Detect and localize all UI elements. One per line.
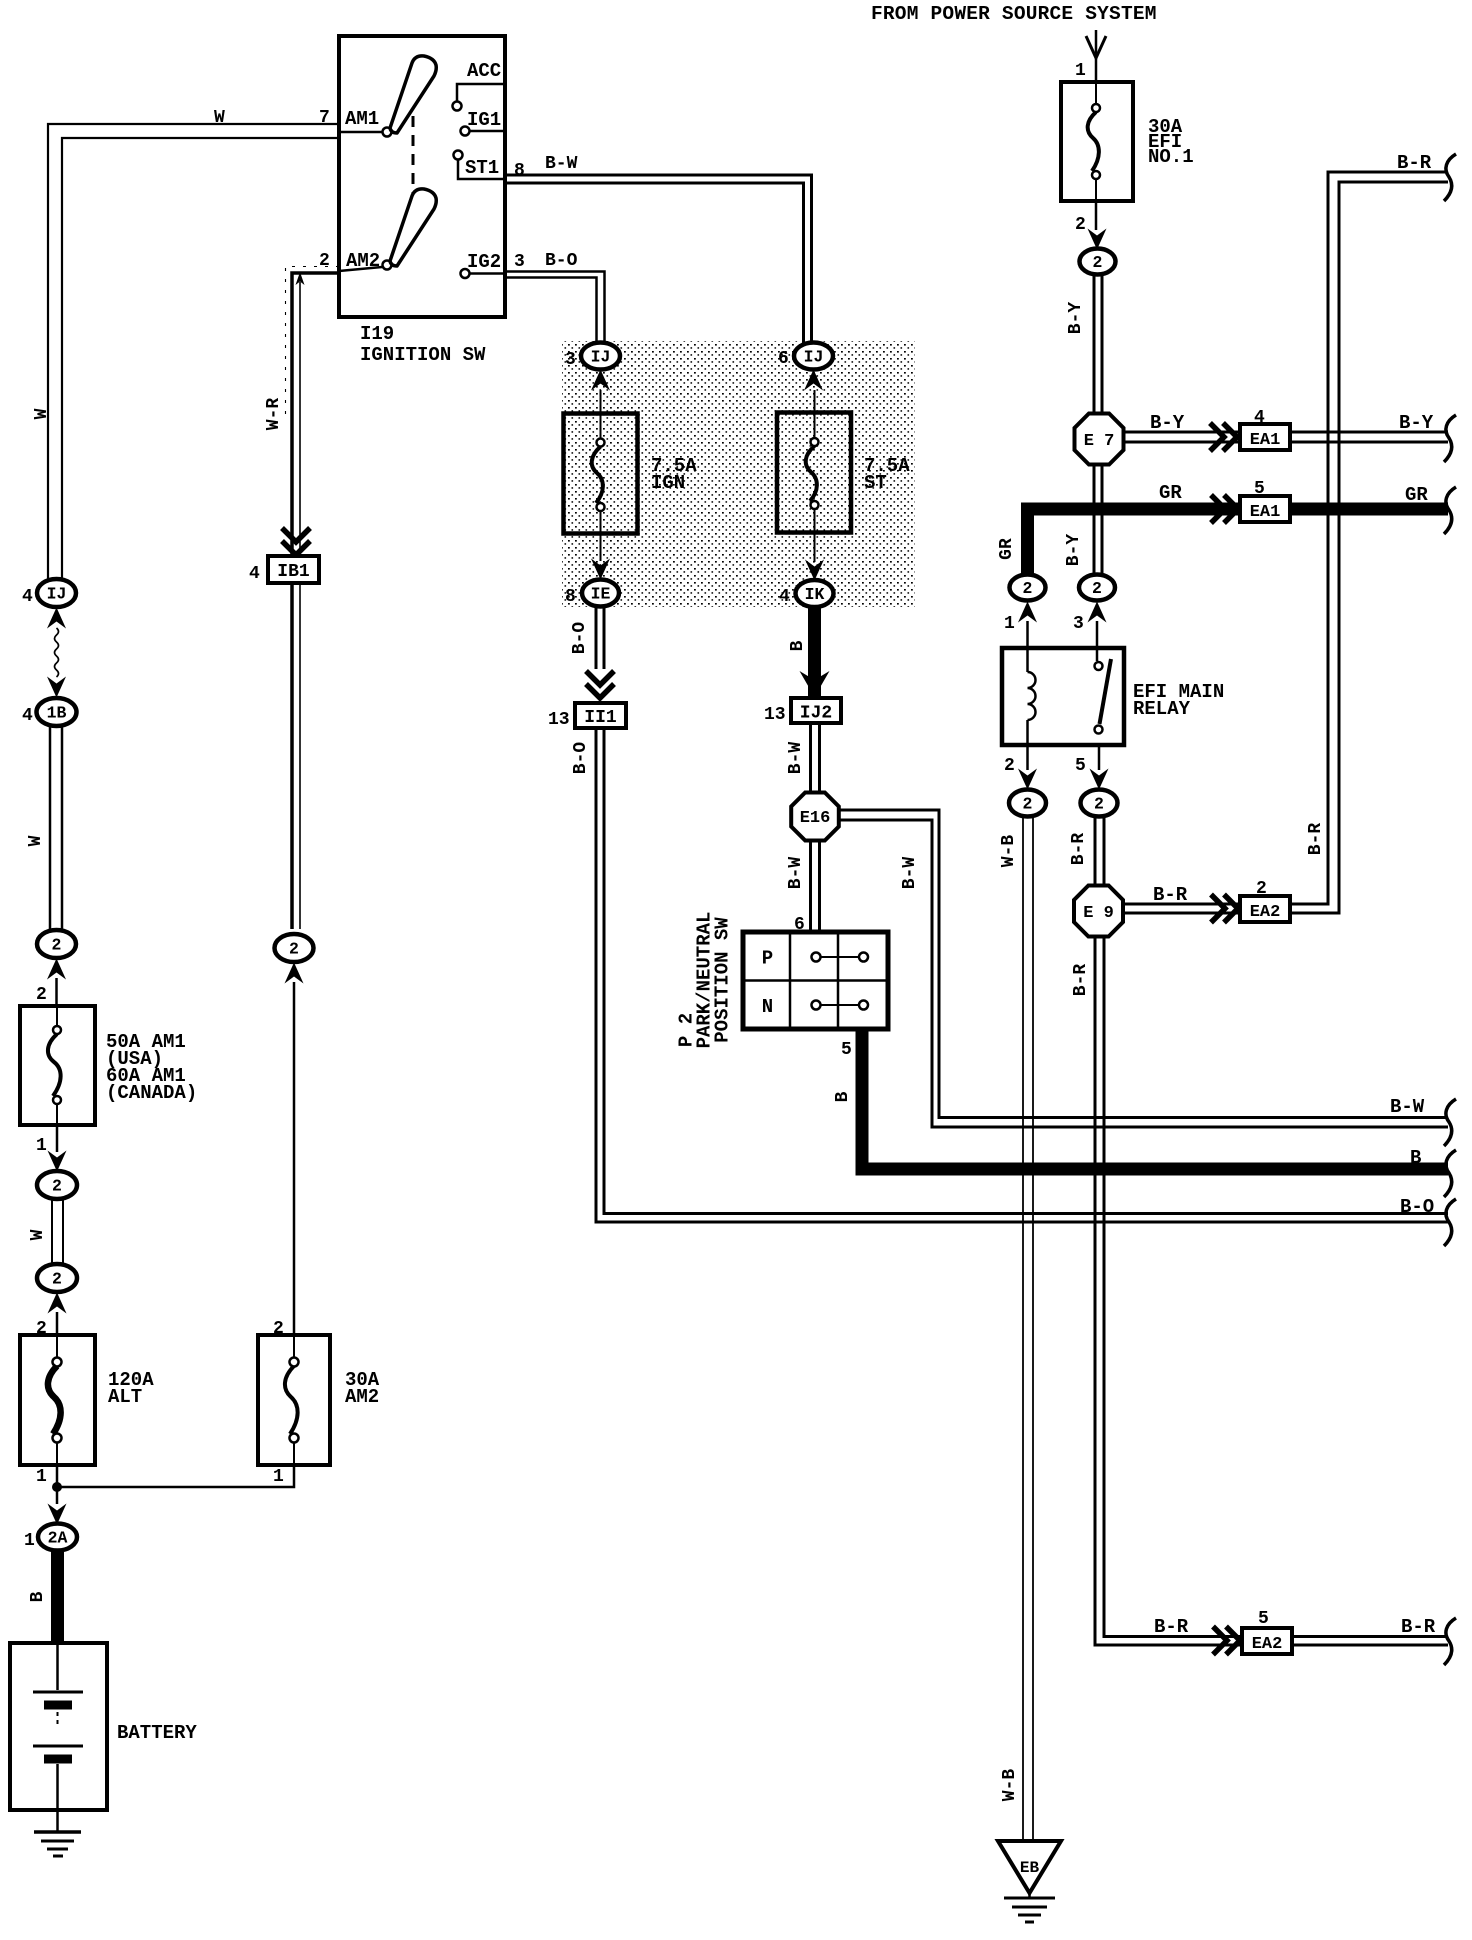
svg-text:2: 2	[1023, 795, 1033, 814]
arrow into IJ	[47, 608, 66, 629]
svg-text:AM2: AM2	[345, 1386, 379, 1408]
wire W below 1B	[49, 726, 52, 931]
svg-text:AM2: AM2	[346, 250, 380, 272]
svg-text:(CANADA): (CANADA)	[106, 1082, 197, 1104]
svg-text:EA2: EA2	[1252, 1635, 1283, 1654]
relay switch	[1096, 648, 1099, 661]
connector ovals 2 below relay	[1009, 790, 1046, 817]
wire B (thick) from pin 5 to bus	[862, 1029, 1448, 1169]
svg-text:1: 1	[36, 1467, 47, 1487]
wire W-B down to EB ground	[1022, 816, 1024, 1841]
svg-text:B-O: B-O	[545, 251, 578, 271]
wire B-O from IG2 pin 3	[505, 272, 605, 344]
wire to relay pin 3	[1096, 621, 1099, 648]
thick arrow into IJ2	[800, 671, 830, 697]
svg-text:3: 3	[565, 350, 576, 370]
wire break B-R lower	[1444, 1618, 1456, 1665]
svg-text:IJ: IJ	[804, 348, 824, 367]
fuse 120A ALT	[20, 1335, 95, 1465]
svg-text:NO.1: NO.1	[1148, 146, 1194, 168]
wire from 30A AM2 to junction	[57, 1465, 294, 1487]
svg-text:2: 2	[1023, 579, 1033, 598]
svg-text:2: 2	[52, 1177, 62, 1196]
arrow into 2A	[48, 1504, 67, 1525]
junction node	[52, 1482, 62, 1492]
svg-text:5: 5	[1075, 756, 1086, 776]
svg-text:2: 2	[289, 940, 299, 959]
wire B-W from IJ2 to E16	[809, 723, 812, 793]
svg-text:2: 2	[1094, 795, 1104, 814]
svg-text:GR: GR	[1405, 484, 1428, 506]
connector oval 2 (EFI fuse)	[1080, 249, 1116, 275]
svg-text:B: B	[788, 640, 808, 651]
wire to fuse 120A ALT	[56, 1312, 59, 1335]
arrow into oval 2	[48, 1293, 67, 1314]
svg-text:5: 5	[841, 1040, 852, 1060]
svg-text:3: 3	[1073, 614, 1084, 634]
svg-text:B-W: B-W	[1390, 1096, 1425, 1118]
arrow into 6 IJ	[804, 370, 823, 391]
wire break B-O	[1444, 1199, 1456, 1246]
svg-text:AM1: AM1	[345, 108, 379, 130]
svg-text:B-Y: B-Y	[1150, 412, 1185, 434]
svg-text:IGNITION SW: IGNITION SW	[360, 344, 486, 366]
connector 2 EA2	[1240, 896, 1290, 922]
svg-text:2: 2	[52, 1270, 62, 1289]
svg-text:P: P	[762, 948, 773, 970]
wire W-R to fuse 30A AM2	[293, 982, 296, 1335]
svg-text:2: 2	[1075, 215, 1086, 235]
splice E16 octagon	[791, 793, 839, 841]
svg-text:B-W: B-W	[786, 857, 806, 890]
wire break GR	[1444, 487, 1456, 534]
chevron arrow into EA2 pin 2	[1211, 895, 1238, 923]
svg-text:1: 1	[36, 1136, 47, 1156]
feed arrow from power source	[1086, 36, 1106, 58]
svg-text:B: B	[833, 1091, 853, 1102]
splice E9 octagon	[1074, 886, 1123, 937]
wire B-W from E16 down to P/N switch	[809, 840, 812, 932]
svg-text:W: W	[214, 108, 225, 128]
N contacts	[812, 1001, 821, 1010]
svg-text:IGN: IGN	[651, 472, 685, 494]
rotor lever AM2	[390, 189, 436, 266]
fuse 7.5A ST	[777, 413, 851, 533]
svg-text:3: 3	[514, 252, 525, 272]
svg-text:W-B: W-B	[999, 835, 1019, 868]
arrow into 1B	[47, 677, 66, 698]
svg-text:E 9: E 9	[1083, 904, 1114, 923]
fuse 50A AM1	[20, 1006, 95, 1125]
wire to fuse 7.5A IGN	[600, 390, 602, 438]
connector oval 4 IJ (left)	[37, 579, 76, 607]
wire B-O below II1 to bus	[596, 728, 1448, 1222]
svg-text:1: 1	[273, 1467, 284, 1487]
svg-text:W: W	[32, 408, 52, 419]
arrow into 3 IJ	[591, 370, 610, 391]
contact AM2	[339, 267, 383, 271]
rotor lever AM1	[390, 56, 436, 133]
wire B-R from E9 down to 5 EA2	[1095, 936, 1240, 1645]
arrow into IE	[591, 559, 610, 580]
wire GR from EA1 to edge	[1291, 503, 1448, 516]
svg-text:1: 1	[24, 1531, 35, 1551]
svg-text:6: 6	[778, 349, 789, 369]
wire B-Y from E7 down	[1093, 464, 1096, 575]
wire B-Y from EA1 to edge	[1290, 431, 1448, 434]
svg-text:BATTERY: BATTERY	[117, 1722, 197, 1744]
svg-text:N: N	[762, 996, 773, 1018]
svg-text:2: 2	[1256, 879, 1267, 899]
svg-text:IG2: IG2	[467, 251, 501, 273]
wire to relay pin 1	[1026, 621, 1029, 648]
wire B-W branch right from E16 to bus	[840, 810, 1448, 1118]
svg-text:EB: EB	[1020, 1859, 1040, 1877]
svg-text:1: 1	[1075, 61, 1086, 81]
svg-text:B-R: B-R	[1069, 833, 1089, 866]
ignition switch I19 box	[339, 36, 505, 317]
svg-text:8: 8	[565, 587, 576, 607]
wire break B	[1444, 1150, 1456, 1197]
svg-text:ST1: ST1	[465, 157, 499, 179]
svg-text:4: 4	[22, 706, 33, 726]
wire from 30A EFI	[1095, 201, 1098, 230]
ground EB triangle	[998, 1841, 1061, 1893]
svg-text:EA2: EA2	[1250, 903, 1281, 922]
svg-text:2: 2	[319, 251, 330, 271]
wire B-W from ST1 pin 8	[505, 175, 812, 343]
relay coil	[1026, 648, 1029, 672]
svg-text:2: 2	[52, 936, 62, 955]
svg-text:4: 4	[22, 587, 33, 607]
wire W from AM1 pin 7 to left junction chain	[48, 124, 339, 581]
svg-text:W: W	[28, 1229, 48, 1240]
P/N switch column divider 1	[789, 932, 792, 1029]
wire B-R from EA2 up to top edge	[1290, 172, 1448, 904]
svg-text:ALT: ALT	[108, 1386, 142, 1408]
svg-text:B-W: B-W	[786, 742, 806, 775]
svg-text:GR: GR	[997, 538, 1017, 560]
arrow into oval 2	[47, 959, 66, 980]
wire from 120A ALT to junction	[56, 1465, 59, 1504]
wire B (thick) below IK	[808, 607, 821, 698]
park/neutral position switch P2 box	[743, 932, 888, 1029]
arrow into IK	[805, 560, 824, 581]
battery ground	[56, 1810, 59, 1832]
svg-text:B-W: B-W	[900, 857, 920, 890]
ground symbol	[1028, 1893, 1031, 1898]
svg-text:2A: 2A	[48, 1529, 68, 1548]
svg-text:IG1: IG1	[467, 109, 501, 131]
wire break B-R	[1444, 154, 1456, 201]
svg-text:1B: 1B	[47, 704, 67, 723]
svg-text:FROM POWER SOURCE SYSTEM: FROM POWER SOURCE SYSTEM	[871, 3, 1157, 25]
svg-text:GR: GR	[1159, 482, 1182, 504]
connector 5 EA2	[1242, 1628, 1292, 1654]
svg-text:POSITION SW: POSITION SW	[712, 917, 734, 1043]
svg-text:I19: I19	[360, 323, 394, 345]
arrow into oval 2 (GR)	[1018, 602, 1037, 623]
svg-text:IJ: IJ	[591, 348, 611, 367]
svg-text:4: 4	[249, 564, 260, 584]
chevron arrow into EA1 pin 4	[1210, 423, 1237, 451]
chevron arrow into EA1 pin 5	[1211, 495, 1238, 523]
svg-text:13: 13	[764, 705, 786, 725]
svg-text:5: 5	[1254, 479, 1265, 499]
wire break B-W	[1444, 1099, 1456, 1146]
wire B-R from EA2 to edge	[1292, 1635, 1448, 1638]
junction box 13 II1	[575, 703, 626, 728]
arrow into oval 2 (W-B)	[1018, 769, 1037, 790]
connector oval 6 IJ	[794, 343, 833, 370]
svg-text:B: B	[28, 1591, 48, 1602]
contact AM1	[339, 131, 383, 134]
svg-text:II1: II1	[584, 708, 617, 728]
connector ovals 2 above relay	[1010, 575, 1046, 601]
wire B (thick) to battery	[51, 1550, 64, 1643]
svg-text:IE: IE	[591, 585, 611, 604]
svg-text:2: 2	[36, 985, 47, 1005]
wire break B-Y	[1444, 415, 1456, 462]
wavy junction link	[55, 628, 59, 677]
svg-text:ACC: ACC	[467, 60, 501, 82]
svg-text:5: 5	[1258, 1609, 1269, 1629]
svg-text:B-O: B-O	[570, 622, 590, 655]
svg-text:B-W: B-W	[545, 154, 578, 174]
svg-text:IK: IK	[805, 585, 825, 604]
connector oval 1 2A	[38, 1524, 77, 1551]
svg-text:B-Y: B-Y	[1064, 534, 1084, 567]
svg-text:2: 2	[1004, 756, 1015, 776]
chevron arrow into II1	[586, 671, 614, 698]
chevron arrow into EA2 pin 5	[1213, 1627, 1240, 1655]
arrow into oval 2 (B-R)	[1090, 769, 1109, 790]
arrow into oval 2	[48, 1151, 67, 1172]
connector oval 2	[37, 1264, 77, 1292]
wire B-Y from E7 to EA1	[1124, 431, 1238, 434]
svg-text:B-R: B-R	[1153, 884, 1188, 906]
P/N switch column divider 2	[837, 932, 840, 1029]
splice E7 octagon	[1075, 414, 1124, 465]
connector 4 EA1	[1240, 424, 1290, 450]
wire B-O below IE	[595, 607, 598, 670]
connector 5 EA1	[1240, 496, 1290, 522]
svg-text:B-R: B-R	[1154, 1616, 1189, 1638]
svg-text:IJ: IJ	[47, 585, 67, 604]
junction box IB1	[282, 528, 310, 555]
svg-text:4: 4	[779, 587, 790, 607]
dashed link between levers	[412, 116, 415, 206]
arrow into oval 2 (AM2 branch)	[285, 963, 304, 984]
svg-text:B-R: B-R	[1306, 823, 1326, 856]
svg-text:W-B: W-B	[1000, 1769, 1020, 1802]
svg-text:RELAY: RELAY	[1133, 698, 1191, 720]
svg-text:2: 2	[1092, 579, 1102, 598]
P/N switch row divider	[743, 979, 888, 982]
junction box 13 IJ2	[791, 698, 841, 723]
svg-text:B-O: B-O	[571, 742, 591, 775]
wire W-R from AM2 pin 2	[286, 267, 340, 416]
wire W	[51, 1199, 53, 1264]
svg-text:1: 1	[1004, 614, 1015, 634]
connector oval 2 (AM2 branch)	[275, 934, 314, 962]
wire B-R from relay to E9	[1094, 816, 1097, 886]
svg-text:4: 4	[1254, 408, 1265, 428]
svg-text:IJ2: IJ2	[800, 704, 832, 724]
svg-text:B-R: B-R	[1401, 1616, 1436, 1638]
arrow into oval 2 (B-Y)	[1088, 602, 1107, 623]
svg-text:EA1: EA1	[1250, 431, 1281, 450]
connector oval 4 1B	[37, 698, 77, 726]
halftone stipple background panel	[562, 341, 915, 607]
svg-text:IB1: IB1	[277, 562, 310, 582]
svg-text:W: W	[26, 835, 46, 846]
svg-text:B-Y: B-Y	[1399, 412, 1434, 434]
wire B-R from E9 to EA2	[1123, 903, 1240, 906]
svg-text:E 7: E 7	[1084, 432, 1115, 451]
svg-text:W-R: W-R	[264, 398, 284, 431]
wire from 50A AM1	[56, 1125, 59, 1152]
fuse 30A EFI NO.1	[1061, 82, 1133, 201]
wire from relay pin 5	[1098, 745, 1101, 770]
svg-text:B-R: B-R	[1071, 964, 1091, 997]
svg-text:8: 8	[514, 161, 525, 181]
wire to fuse 50A AM1	[55, 978, 58, 1006]
svg-text:ST: ST	[864, 472, 887, 494]
svg-text:B-R: B-R	[1397, 152, 1432, 174]
P contacts	[812, 953, 821, 962]
connector oval 3 IJ	[581, 343, 620, 370]
wire from relay pin 2	[1026, 745, 1029, 770]
connector oval 2 (above 50A AM1)	[37, 930, 76, 958]
wire GR (thick) from oval up and right to EA1	[1028, 509, 1241, 575]
connector oval 8 IE	[582, 580, 619, 607]
fuse 7.5A IGN	[564, 414, 638, 534]
connector oval 4 IK	[796, 580, 834, 607]
svg-text:EA1: EA1	[1250, 503, 1281, 522]
svg-text:B: B	[1410, 1147, 1421, 1169]
wire B-Y down to E7	[1093, 274, 1096, 414]
fuse 30A AM2	[258, 1335, 330, 1465]
svg-text:13: 13	[548, 710, 570, 730]
wire to fuse 7.5A ST	[814, 390, 816, 438]
svg-text:B-O: B-O	[1400, 1196, 1434, 1218]
arrow into oval 2	[1088, 229, 1107, 250]
svg-text:E16: E16	[800, 809, 831, 828]
svg-text:B-Y: B-Y	[1066, 302, 1086, 335]
svg-text:2: 2	[1093, 253, 1103, 272]
battery	[10, 1643, 107, 1810]
connector oval 2	[37, 1171, 77, 1199]
EFI main relay box	[1002, 648, 1124, 745]
